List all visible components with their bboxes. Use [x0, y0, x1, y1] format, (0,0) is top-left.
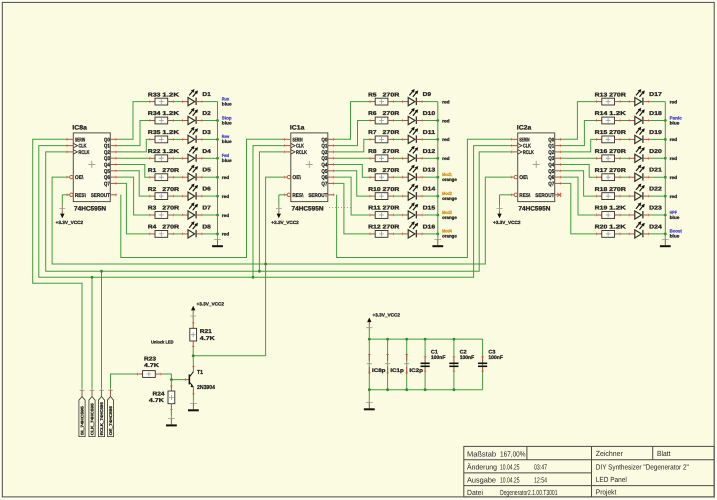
- svg-text:DIY Synthesizer "Degenerator 2: DIY Synthesizer "Degenerator 2": [596, 463, 689, 472]
- svg-text:1.2K: 1.2K: [609, 111, 626, 117]
- svg-text:R18: R18: [595, 187, 608, 193]
- svg-text:270R: 270R: [383, 168, 400, 174]
- svg-text:red: red: [442, 99, 450, 104]
- svg-text:red: red: [670, 175, 678, 180]
- svg-text:+3.3V_VCC2: +3.3V_VCC2: [373, 313, 401, 318]
- svg-text:orange: orange: [442, 215, 457, 220]
- svg-text:D22: D22: [649, 187, 662, 193]
- svg-text:R5: R5: [368, 92, 376, 98]
- svg-text:4.7K: 4.7K: [149, 398, 164, 404]
- svg-text:R12: R12: [368, 225, 381, 231]
- svg-text:Unlock LED: Unlock LED: [151, 340, 174, 345]
- svg-text:2N3904: 2N3904: [197, 384, 216, 391]
- svg-text:R4: R4: [148, 225, 157, 231]
- svg-text:100nF: 100nF: [431, 355, 446, 361]
- svg-text:Q0: Q0: [548, 137, 554, 143]
- svg-text:R24: R24: [153, 392, 166, 398]
- svg-text:SEROUT: SEROUT: [91, 193, 111, 199]
- svg-text:270R: 270R: [162, 187, 179, 193]
- svg-text:270R: 270R: [383, 206, 400, 212]
- svg-text:SI_74HC595: SI_74HC595: [79, 405, 84, 435]
- svg-text:D14: D14: [423, 187, 437, 193]
- svg-text:red: red: [222, 175, 230, 180]
- svg-text:blue: blue: [222, 101, 232, 106]
- svg-text:blue: blue: [670, 234, 680, 239]
- svg-text:IC2p: IC2p: [409, 368, 423, 374]
- svg-text:D21: D21: [649, 168, 662, 174]
- svg-text:blue: blue: [670, 120, 680, 125]
- svg-text:270R: 270R: [383, 187, 400, 193]
- svg-text:orange: orange: [442, 196, 457, 201]
- svg-text:R7: R7: [368, 130, 376, 136]
- svg-text:red: red: [442, 156, 450, 161]
- svg-text:Q1: Q1: [548, 144, 554, 150]
- svg-text:R16: R16: [595, 149, 608, 155]
- svg-text:RES\: RES\: [75, 193, 86, 199]
- svg-text:270R: 270R: [609, 168, 626, 174]
- svg-text:Q1: Q1: [321, 144, 327, 150]
- svg-text:Q7: Q7: [321, 181, 327, 187]
- svg-text:270R: 270R: [383, 130, 400, 136]
- svg-text:D1: D1: [202, 92, 210, 98]
- svg-text:R21: R21: [200, 329, 212, 335]
- svg-text:D20: D20: [649, 149, 662, 155]
- svg-text:Q2: Q2: [548, 150, 554, 156]
- svg-text:D3: D3: [202, 130, 210, 136]
- svg-text:Maßstab: Maßstab: [467, 449, 496, 458]
- svg-text:blue: blue: [670, 215, 680, 220]
- svg-text:Q5: Q5: [104, 169, 110, 175]
- svg-text:R6: R6: [368, 111, 376, 117]
- svg-text:R34: R34: [148, 111, 162, 117]
- svg-text:Q2: Q2: [104, 150, 110, 156]
- svg-text:RES\: RES\: [292, 193, 303, 199]
- svg-text:Q6: Q6: [321, 175, 327, 181]
- svg-text:blue: blue: [222, 120, 232, 125]
- svg-text:+3.3V_VCC2: +3.3V_VCC2: [493, 220, 521, 225]
- svg-text:red: red: [670, 194, 678, 199]
- svg-text:Q1: Q1: [104, 144, 110, 150]
- svg-text:Q7: Q7: [548, 181, 554, 187]
- svg-text:R33: R33: [148, 92, 161, 98]
- svg-text:red: red: [442, 118, 450, 123]
- svg-text:Zeichner: Zeichner: [596, 449, 623, 458]
- svg-text:167,00%: 167,00%: [500, 449, 526, 458]
- svg-text:D13: D13: [423, 168, 436, 174]
- svg-text:IC1p: IC1p: [390, 368, 404, 374]
- svg-text:1.2K: 1.2K: [609, 225, 626, 231]
- svg-text:orange: orange: [442, 234, 457, 239]
- svg-text:270R: 270R: [609, 149, 626, 155]
- svg-text:Q3: Q3: [548, 156, 554, 162]
- svg-text:SERIN: SERIN: [519, 137, 529, 143]
- svg-text:red: red: [222, 213, 230, 218]
- svg-text:03:47: 03:47: [534, 463, 547, 472]
- svg-text:Q4: Q4: [104, 163, 110, 169]
- svg-text:D7: D7: [202, 206, 210, 212]
- svg-text:R20: R20: [595, 225, 608, 231]
- svg-text:10.04.25: 10.04.25: [500, 463, 520, 472]
- svg-text:RCLK: RCLK: [296, 150, 307, 156]
- svg-text:RCLK: RCLK: [523, 150, 534, 156]
- svg-text:Q0: Q0: [321, 137, 327, 143]
- svg-text:D11: D11: [423, 130, 436, 136]
- svg-text:Q6: Q6: [104, 175, 110, 181]
- svg-text:100nF: 100nF: [460, 355, 475, 361]
- svg-text:R11: R11: [368, 206, 381, 212]
- svg-text:+3.3V_VCC2: +3.3V_VCC2: [271, 220, 299, 225]
- svg-text:Q5: Q5: [321, 169, 327, 175]
- svg-text:270R: 270R: [383, 92, 400, 98]
- svg-text:red: red: [670, 137, 678, 142]
- svg-text:R2: R2: [148, 187, 156, 193]
- svg-text:270R: 270R: [383, 149, 400, 155]
- svg-text:OE_74HC595: OE_74HC595: [108, 405, 113, 435]
- svg-text:CLK: CLK: [523, 144, 531, 150]
- svg-text:270R: 270R: [162, 206, 179, 212]
- svg-text:270R: 270R: [383, 111, 400, 117]
- svg-text:D9: D9: [423, 92, 431, 98]
- svg-text:red: red: [670, 156, 678, 161]
- svg-text:Degenerator2.1.00.T3001: Degenerator2.1.00.T3001: [500, 488, 558, 497]
- svg-text:Datei: Datei: [467, 488, 483, 497]
- svg-text:R13: R13: [595, 92, 608, 98]
- svg-text:4.7K: 4.7K: [200, 336, 215, 342]
- svg-text:D2: D2: [202, 111, 210, 117]
- svg-text:IC8p: IC8p: [372, 368, 386, 374]
- svg-text:R8: R8: [368, 149, 376, 155]
- svg-text:R15: R15: [595, 130, 608, 136]
- svg-text:1.2K: 1.2K: [162, 92, 179, 98]
- svg-text:1.2K: 1.2K: [609, 206, 626, 212]
- svg-text:OE\: OE\: [519, 175, 528, 181]
- svg-text:Q4: Q4: [548, 163, 554, 169]
- svg-text:270R: 270R: [609, 92, 626, 98]
- svg-text:R23: R23: [144, 357, 156, 363]
- svg-text:D6: D6: [202, 187, 210, 193]
- svg-text:red: red: [222, 232, 230, 237]
- svg-text:SEROUT: SEROUT: [308, 193, 328, 199]
- svg-text:12:54: 12:54: [534, 475, 547, 484]
- svg-text:CLK: CLK: [296, 144, 304, 150]
- svg-text:D4: D4: [202, 149, 211, 155]
- svg-text:Q2: Q2: [321, 150, 327, 156]
- svg-text:270R: 270R: [383, 225, 400, 231]
- svg-text:D19: D19: [649, 130, 662, 136]
- svg-text:Projekt: Projekt: [596, 488, 617, 497]
- svg-text:IC1a: IC1a: [290, 124, 305, 131]
- svg-text:CLK: CLK: [79, 144, 87, 150]
- svg-text:RCLK: RCLK: [79, 150, 90, 156]
- svg-text:D24: D24: [649, 224, 663, 230]
- svg-text:+3.3V_VCC2: +3.3V_VCC2: [56, 220, 84, 225]
- svg-text:270R: 270R: [609, 187, 626, 193]
- svg-text:1.2K: 1.2K: [162, 111, 179, 117]
- svg-text:R1: R1: [148, 168, 156, 174]
- svg-text:74HC595N: 74HC595N: [518, 205, 550, 212]
- svg-text:74HC595N: 74HC595N: [74, 205, 106, 212]
- svg-text:R19: R19: [595, 206, 608, 212]
- svg-text:LED Panel: LED Panel: [596, 475, 627, 484]
- svg-text:4.7K: 4.7K: [144, 363, 159, 369]
- svg-text:1.2K: 1.2K: [162, 149, 179, 155]
- svg-text:R17: R17: [595, 168, 608, 174]
- svg-text:SEROUT: SEROUT: [535, 193, 555, 199]
- svg-text:D10: D10: [423, 111, 436, 117]
- svg-text:IC8a: IC8a: [72, 124, 87, 131]
- svg-text:D12: D12: [423, 149, 436, 155]
- svg-text:1.2K: 1.2K: [162, 130, 179, 136]
- svg-text:100nF: 100nF: [488, 355, 503, 361]
- svg-text:SERIN: SERIN: [75, 137, 85, 143]
- svg-text:orange: orange: [442, 177, 457, 182]
- svg-text:D15: D15: [423, 206, 436, 212]
- svg-text:D18: D18: [649, 111, 662, 117]
- svg-text:OE\: OE\: [292, 175, 301, 181]
- svg-text:Q6: Q6: [548, 175, 554, 181]
- svg-text:blue: blue: [222, 158, 232, 163]
- svg-text:R22: R22: [148, 149, 161, 155]
- svg-text:R10: R10: [368, 187, 381, 193]
- svg-text:270R: 270R: [162, 168, 179, 174]
- svg-text:Q0: Q0: [104, 137, 110, 143]
- svg-text:R14: R14: [595, 111, 609, 117]
- svg-text:Q3: Q3: [321, 156, 327, 162]
- svg-text:74HC595N: 74HC595N: [292, 205, 324, 212]
- svg-text:D5: D5: [202, 168, 210, 174]
- svg-text:Ausgabe: Ausgabe: [467, 475, 496, 484]
- svg-text:R9: R9: [368, 168, 376, 174]
- svg-text:R3: R3: [148, 206, 156, 212]
- svg-text:R35: R35: [148, 130, 161, 136]
- svg-text:IC2a: IC2a: [517, 124, 532, 131]
- svg-text:D8: D8: [202, 224, 210, 230]
- svg-text:D17: D17: [649, 92, 662, 98]
- svg-text:270R: 270R: [162, 225, 179, 231]
- svg-text:RCLK_74HC595: RCLK_74HC595: [99, 401, 104, 435]
- svg-text:Blatt: Blatt: [657, 449, 671, 458]
- svg-text:blue: blue: [222, 139, 232, 144]
- svg-text:270R: 270R: [609, 130, 626, 136]
- svg-text:Q4: Q4: [321, 163, 327, 169]
- svg-text:Q3: Q3: [104, 156, 110, 162]
- svg-text:Q7: Q7: [104, 181, 110, 187]
- svg-text:D23: D23: [649, 206, 662, 212]
- svg-text:red: red: [222, 194, 230, 199]
- svg-text:SERIN: SERIN: [292, 137, 302, 143]
- svg-text:D16: D16: [423, 224, 436, 230]
- svg-text:red: red: [670, 99, 678, 104]
- svg-text:red: red: [442, 137, 450, 142]
- svg-text:+3.3V_VCC2: +3.3V_VCC2: [197, 301, 225, 306]
- svg-text:OE\: OE\: [75, 175, 84, 181]
- svg-text:RES\: RES\: [519, 193, 530, 199]
- svg-text:10.04.25: 10.04.25: [500, 475, 520, 484]
- svg-text:CLK_74HC595: CLK_74HC595: [89, 402, 94, 435]
- svg-text:Q5: Q5: [548, 169, 554, 175]
- svg-text:Änderung: Änderung: [467, 463, 497, 472]
- svg-text:T1: T1: [197, 370, 204, 376]
